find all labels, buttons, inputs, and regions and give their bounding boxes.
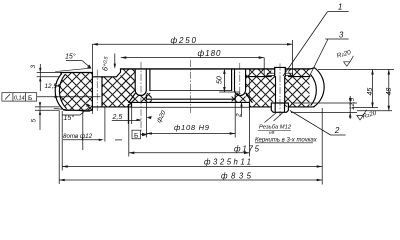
svg-text:45: 45 [367, 88, 374, 96]
ring seam right [246, 76, 310, 78]
hatch pocket right [232, 93, 246, 102]
svg-text:2: 2 [236, 113, 243, 118]
dim line Ø250 [92, 43, 292, 45]
tolerance frame [2, 93, 37, 101]
svg-text:Б: Б [28, 95, 32, 102]
bottom left [66, 102, 132, 110]
hatch left rim column [121, 69, 136, 102]
svg-text:48: 48 [386, 88, 393, 96]
2.5 verticals [128, 104, 132, 124]
lower surface left [92, 76, 116, 78]
svg-text:5: 5 [31, 119, 38, 123]
bottom face seen through recess [132, 106, 250, 108]
cavity wall left [149, 69, 151, 91]
bolt hole walls left [92, 73, 102, 111]
50 dim [223, 69, 225, 92]
hatch left main block [59, 73, 92, 111]
washer lines [268, 73, 293, 75]
svg-text:Б: Б [134, 132, 139, 139]
mid line bore bottom [146, 98, 235, 100]
arrows [39, 43, 390, 181]
right bulge top connect [310, 68, 315, 107]
note leaders [265, 113, 284, 123]
hatch flange right upper left of shank [246, 77, 275, 102]
label leaders [66, 61, 90, 68]
dim Ø325h11 [62, 166, 322, 168]
left bulge inner arc [59, 75, 66, 109]
svg-text:12,5: 12,5 [349, 97, 356, 110]
svg-text:2: 2 [334, 126, 340, 135]
svg-text:50: 50 [217, 76, 224, 84]
hatch left block right of hole [102, 77, 132, 107]
datum leader [141, 134, 146, 136]
svg-text:н9: н9 [269, 130, 275, 136]
nut [271, 103, 288, 112]
hatch flange right lower strip [250, 102, 272, 107]
note underlines [255, 131, 313, 143]
svg-text:2,5: 2,5 [112, 114, 123, 121]
mid line recess ceiling [129, 101, 250, 103]
datum box [132, 130, 141, 139]
bore wall stubs [146, 95, 235, 99]
cavity floor [150, 90, 232, 92]
3 dim left [39, 64, 41, 91]
bolt shank [276, 77, 285, 103]
svg-text:0,14: 0,14 [14, 96, 26, 102]
under-flange verticals [83, 107, 105, 150]
svg-text:ф180: ф180 [198, 49, 222, 58]
bolt head [275, 67, 286, 76]
roughness checks [344, 56, 367, 120]
svg-text:15°: 15° [64, 114, 75, 122]
right bulge outer arc [315, 68, 325, 107]
svg-text:3: 3 [339, 31, 344, 40]
2 dim right small [241, 102, 243, 116]
svg-text:Резьба М12: Резьба М12 [259, 125, 292, 131]
dim Ø108 [146, 133, 235, 135]
hatch flange right of shank [285, 77, 310, 107]
upper surface left raised [61, 72, 93, 74]
6+0.5 dim [114, 54, 116, 68]
chamfer diag right [246, 94, 252, 103]
leaders 1 and 3 [283, 12, 349, 76]
groove right U [235, 70, 246, 96]
svg-text:1: 1 [338, 3, 342, 12]
svg-text:12,5: 12,5 [45, 83, 58, 90]
right vertical dims 45 48 12.5 [318, 69, 394, 71]
svg-text:8отв ф12: 8отв ф12 [63, 133, 93, 140]
hatch pocket left [135, 95, 152, 102]
tolerance frame to part [37, 96, 101, 98]
right bulge inner arc [311, 75, 316, 105]
chamfer line 15 deg [54, 68, 92, 114]
dim line Ø180 [121, 57, 264, 59]
rim chamfer [116, 69, 120, 77]
left bulge outer arc [55, 74, 63, 110]
dim Ø175 [129, 152, 250, 154]
bottom right [250, 102, 315, 107]
dim Ø835 [59, 179, 322, 181]
hatch ring left of bolt [246, 69, 272, 77]
chamfer diag left [129, 94, 135, 103]
groove left U [135, 70, 146, 96]
leader 2 [290, 111, 346, 136]
seam line at ring edge [248, 69, 250, 110]
cavity wall right [231, 69, 233, 91]
rim top line thick [121, 68, 275, 70]
bulge top/bottom connect [61, 73, 67, 111]
svg-text:3: 3 [30, 65, 37, 69]
svg-text:15°: 15° [65, 53, 76, 61]
hatch ring right of bolt [288, 69, 309, 77]
svg-text:ф108 Н9: ф108 Н9 [174, 123, 210, 132]
centerlines [97, 60, 280, 132]
thin lines group [35, 12, 394, 185]
